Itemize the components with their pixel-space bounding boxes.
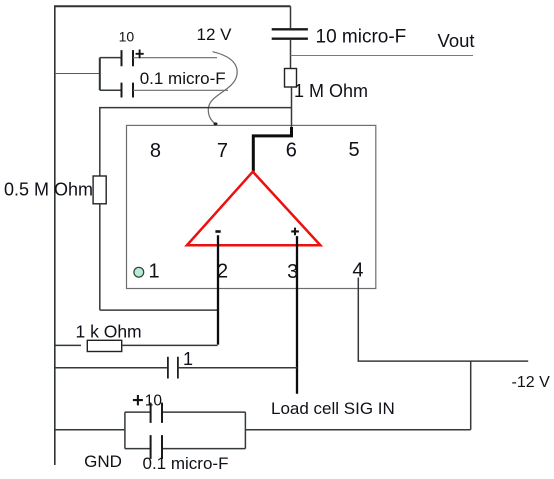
svg-text:10 micro-F: 10 micro-F bbox=[316, 26, 407, 47]
svg-text:5: 5 bbox=[348, 139, 359, 161]
svg-text:Load cell SIG IN: Load cell SIG IN bbox=[271, 399, 395, 418]
svg-text:0.1 micro-F: 0.1 micro-F bbox=[143, 454, 229, 473]
svg-text:6: 6 bbox=[286, 140, 297, 162]
svg-text:12 V: 12 V bbox=[197, 25, 233, 44]
svg-text:4: 4 bbox=[352, 260, 363, 282]
svg-text:10: 10 bbox=[119, 29, 135, 45]
svg-text:1: 1 bbox=[148, 260, 159, 282]
svg-text:3: 3 bbox=[287, 261, 298, 283]
svg-text:1: 1 bbox=[183, 349, 193, 369]
svg-text:-12 V: -12 V bbox=[512, 374, 551, 391]
svg-text:1 k Ohm: 1 k Ohm bbox=[76, 322, 142, 342]
svg-text:1 M Ohm: 1 M Ohm bbox=[294, 81, 368, 101]
svg-text:Vout: Vout bbox=[438, 30, 475, 51]
svg-text:GND: GND bbox=[84, 452, 122, 471]
svg-text:2: 2 bbox=[217, 261, 228, 283]
svg-text:10: 10 bbox=[145, 392, 163, 409]
svg-text:0.1 micro-F: 0.1 micro-F bbox=[140, 69, 226, 88]
svg-text:7: 7 bbox=[217, 140, 228, 162]
svg-text:8: 8 bbox=[150, 140, 161, 162]
svg-text:0.5 M Ohm: 0.5 M Ohm bbox=[4, 180, 93, 200]
